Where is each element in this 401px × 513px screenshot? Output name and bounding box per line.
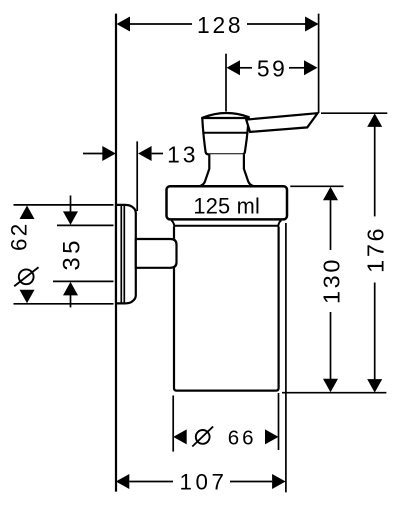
container body [174, 227, 279, 391]
diameter symbol of dia 66 [196, 430, 210, 444]
dimension dia 66 [173, 429, 187, 444]
pump neck and skirt [199, 154, 253, 186]
svg-text:13: 13 [167, 141, 198, 167]
extension line for 107 (lid edge) [285, 223, 287, 492]
svg-text:66: 66 [228, 426, 257, 449]
bottle lid [167, 186, 288, 219]
collar ring under lid [171, 220, 281, 225]
dimension 128 [130, 23, 307, 25]
wall plate [116, 205, 136, 304]
wall plate rim line 1 [120, 206, 122, 303]
extension line bottom of 130/176 (container bottom) [282, 392, 386, 394]
dimension 176 [374, 126, 376, 216]
svg-text:176: 176 [363, 226, 389, 273]
dimension 59 [240, 67, 305, 69]
diameter symbol of dia 62 [19, 269, 34, 284]
dimension dia 62 [14, 204, 114, 206]
dimension 130 [330, 198, 332, 250]
wall plate rim line 2 [123, 206, 125, 303]
extension line top of 176 (lever top) [321, 112, 387, 114]
pump lever [246, 113, 317, 132]
svg-text:130: 130 [319, 257, 345, 304]
extension lines for dia 66 [172, 396, 174, 452]
dimension 107 [129, 481, 173, 483]
svg-text:107: 107 [179, 469, 227, 494]
pump head mid line [203, 132, 248, 134]
extension line right of 128/59 (lever tip) [318, 14, 320, 113]
extension line top of 130 (lid top) [290, 185, 343, 187]
svg-text:125 ml: 125 ml [193, 193, 260, 218]
wall [115, 14, 117, 492]
extension line for 13 (plate front) [136, 141, 138, 211]
extension line left of 59 (pump axis) [225, 54, 227, 112]
svg-text:128: 128 [197, 12, 243, 38]
pump cap dome [202, 113, 248, 118]
pump head [202, 117, 248, 154]
svg-text:62: 62 [6, 222, 31, 251]
svg-text:59: 59 [257, 56, 288, 82]
dimension 13 [83, 153, 103, 155]
svg-text:35: 35 [58, 237, 85, 271]
holder arm [136, 239, 177, 268]
dimension 35 [57, 224, 114, 226]
